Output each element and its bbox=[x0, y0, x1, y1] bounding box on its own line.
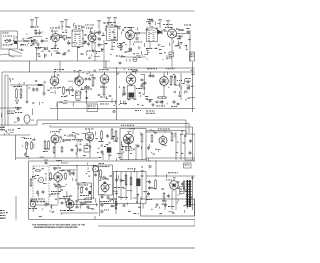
svg-text:THE TERMINATION OF THE ANTENNA: THE TERMINATION OF THE ANTENNA LEAD OF T… bbox=[32, 223, 86, 226]
svg-text:RECEIVER MUST BE MADE TO MATCH: RECEIVER MUST BE MADE TO MATCH THE LINE … bbox=[34, 226, 78, 229]
